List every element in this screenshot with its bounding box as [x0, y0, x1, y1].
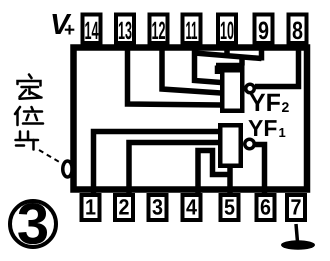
wire pin7 to ground — [296, 224, 298, 242]
ground — [281, 240, 315, 250]
svg-text:7: 7 — [291, 195, 302, 220]
wire pin12 to YF2 input — [162, 46, 221, 93]
pin 7 — [287, 195, 305, 221]
pin 13 — [116, 15, 134, 46]
pin 11 — [183, 15, 201, 46]
svg-text:5: 5 — [224, 195, 235, 220]
svg-text:3: 3 — [152, 195, 163, 220]
wire pin5 riser to YF1 bottom — [227, 164, 233, 197]
svg-text:12: 12 — [152, 17, 166, 45]
svg-text:+: + — [64, 20, 75, 41]
pin 2 — [115, 195, 133, 221]
svg-text:2: 2 — [282, 99, 290, 115]
char 定 — [29, 75, 32, 79]
wire pin9 jog to YF2 top-left input — [216, 56, 245, 74]
pin 12 — [150, 15, 168, 46]
label YF1 — [248, 115, 286, 141]
pin 10 — [218, 15, 236, 46]
svg-text:YF: YF — [248, 115, 277, 141]
label YF2 — [249, 89, 290, 117]
wire pin2 to YF1 input — [129, 143, 219, 198]
leader dashed line to tab — [39, 150, 61, 163]
IC body U1 (DIP-14 outline) — [74, 48, 308, 190]
svg-text:10: 10 — [220, 17, 234, 45]
wire pin11 to YF2 input — [195, 46, 222, 83]
svg-text:9: 9 — [258, 17, 269, 45]
wire YF1 output to pin 6 — [254, 145, 265, 198]
char 位 — [15, 107, 20, 114]
gate YF2 (4-input NAND body) — [222, 70, 242, 111]
svg-text:6: 6 — [260, 195, 271, 220]
svg-text:4: 4 — [186, 195, 198, 220]
svg-text:8: 8 — [292, 17, 303, 45]
pin 14 — [83, 15, 101, 46]
wire pin1 to YF1 input — [94, 132, 220, 198]
char 片 — [19, 132, 22, 141]
pin 1 — [82, 195, 100, 221]
pin 4 — [183, 195, 201, 221]
svg-text:13: 13 — [118, 17, 132, 45]
pin 9 — [255, 15, 273, 46]
svg-text:3: 3 — [17, 192, 49, 257]
gate YF2 inversion bubble — [246, 84, 255, 93]
wire pin13 to YF2 input — [128, 46, 222, 105]
svg-text:11: 11 — [186, 17, 198, 45]
svg-text:YF: YF — [249, 89, 281, 117]
wire pin4 jog to pin5 riser — [198, 151, 230, 198]
annotation 定位片 (locating tab label) — [15, 75, 43, 150]
pin 6 — [257, 195, 275, 221]
wire YF2 output to pin 8 — [255, 46, 299, 87]
V+ power label — [50, 9, 75, 41]
gate YF1 inversion bubble — [245, 139, 255, 149]
pin 5 — [221, 195, 239, 221]
svg-text:1: 1 — [85, 195, 96, 220]
figure number 3 (circled) — [10, 192, 56, 257]
wire bus under top edge (pins 9,10,11 tie) — [195, 45, 262, 61]
pin 3 — [149, 195, 167, 221]
locating tab on IC left edge — [63, 161, 73, 177]
svg-text:14: 14 — [85, 17, 99, 45]
pin 8 — [289, 15, 307, 46]
svg-text:2: 2 — [119, 195, 130, 220]
gate YF1 (4-input NAND body) — [220, 125, 241, 166]
svg-text:1: 1 — [279, 125, 286, 140]
